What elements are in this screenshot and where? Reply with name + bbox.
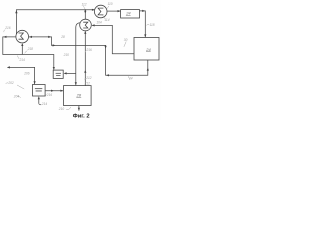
- svg-text:210: 210: [58, 107, 65, 111]
- svg-text:30: 30: [124, 38, 128, 42]
- svg-text:24: 24: [145, 47, 151, 52]
- svg-text:Фиг. 2: Фиг. 2: [73, 113, 90, 119]
- svg-text:216: 216: [86, 48, 93, 52]
- svg-text:28: 28: [76, 93, 82, 98]
- svg-text:212: 212: [85, 76, 92, 80]
- svg-text:216: 216: [4, 26, 11, 30]
- svg-text:28: 28: [60, 35, 65, 39]
- svg-text:210: 210: [63, 53, 70, 57]
- svg-text:212: 212: [84, 82, 91, 86]
- svg-text:206: 206: [23, 72, 30, 76]
- svg-text:118: 118: [150, 23, 155, 27]
- svg-text:24: 24: [125, 11, 131, 16]
- svg-text:104: 104: [96, 20, 102, 24]
- svg-text:216: 216: [46, 93, 53, 97]
- svg-text:114: 114: [104, 18, 109, 22]
- svg-text:110: 110: [108, 2, 113, 6]
- svg-text:202: 202: [7, 81, 14, 85]
- svg-text:214: 214: [19, 58, 26, 62]
- svg-text:112: 112: [82, 2, 87, 6]
- svg-text:214: 214: [41, 102, 48, 106]
- svg-text:218: 218: [27, 47, 34, 51]
